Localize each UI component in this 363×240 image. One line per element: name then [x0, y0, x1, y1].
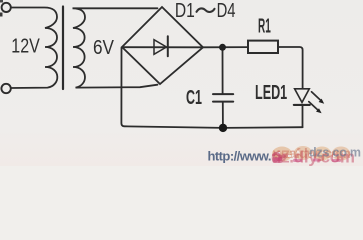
- svg-text:LED1: LED1: [255, 81, 287, 104]
- svg-text:D1: D1: [175, 0, 195, 21]
- svg-text:R1: R1: [258, 16, 271, 38]
- svg-text:dzs co m: dzs co m: [309, 146, 361, 160]
- svg-text:http://www.: http://www.: [208, 148, 272, 163]
- svg-text:6V: 6V: [93, 36, 114, 59]
- svg-text:C1: C1: [186, 86, 202, 109]
- svg-text:12V: 12V: [11, 35, 39, 57]
- svg-text:D4: D4: [217, 0, 236, 21]
